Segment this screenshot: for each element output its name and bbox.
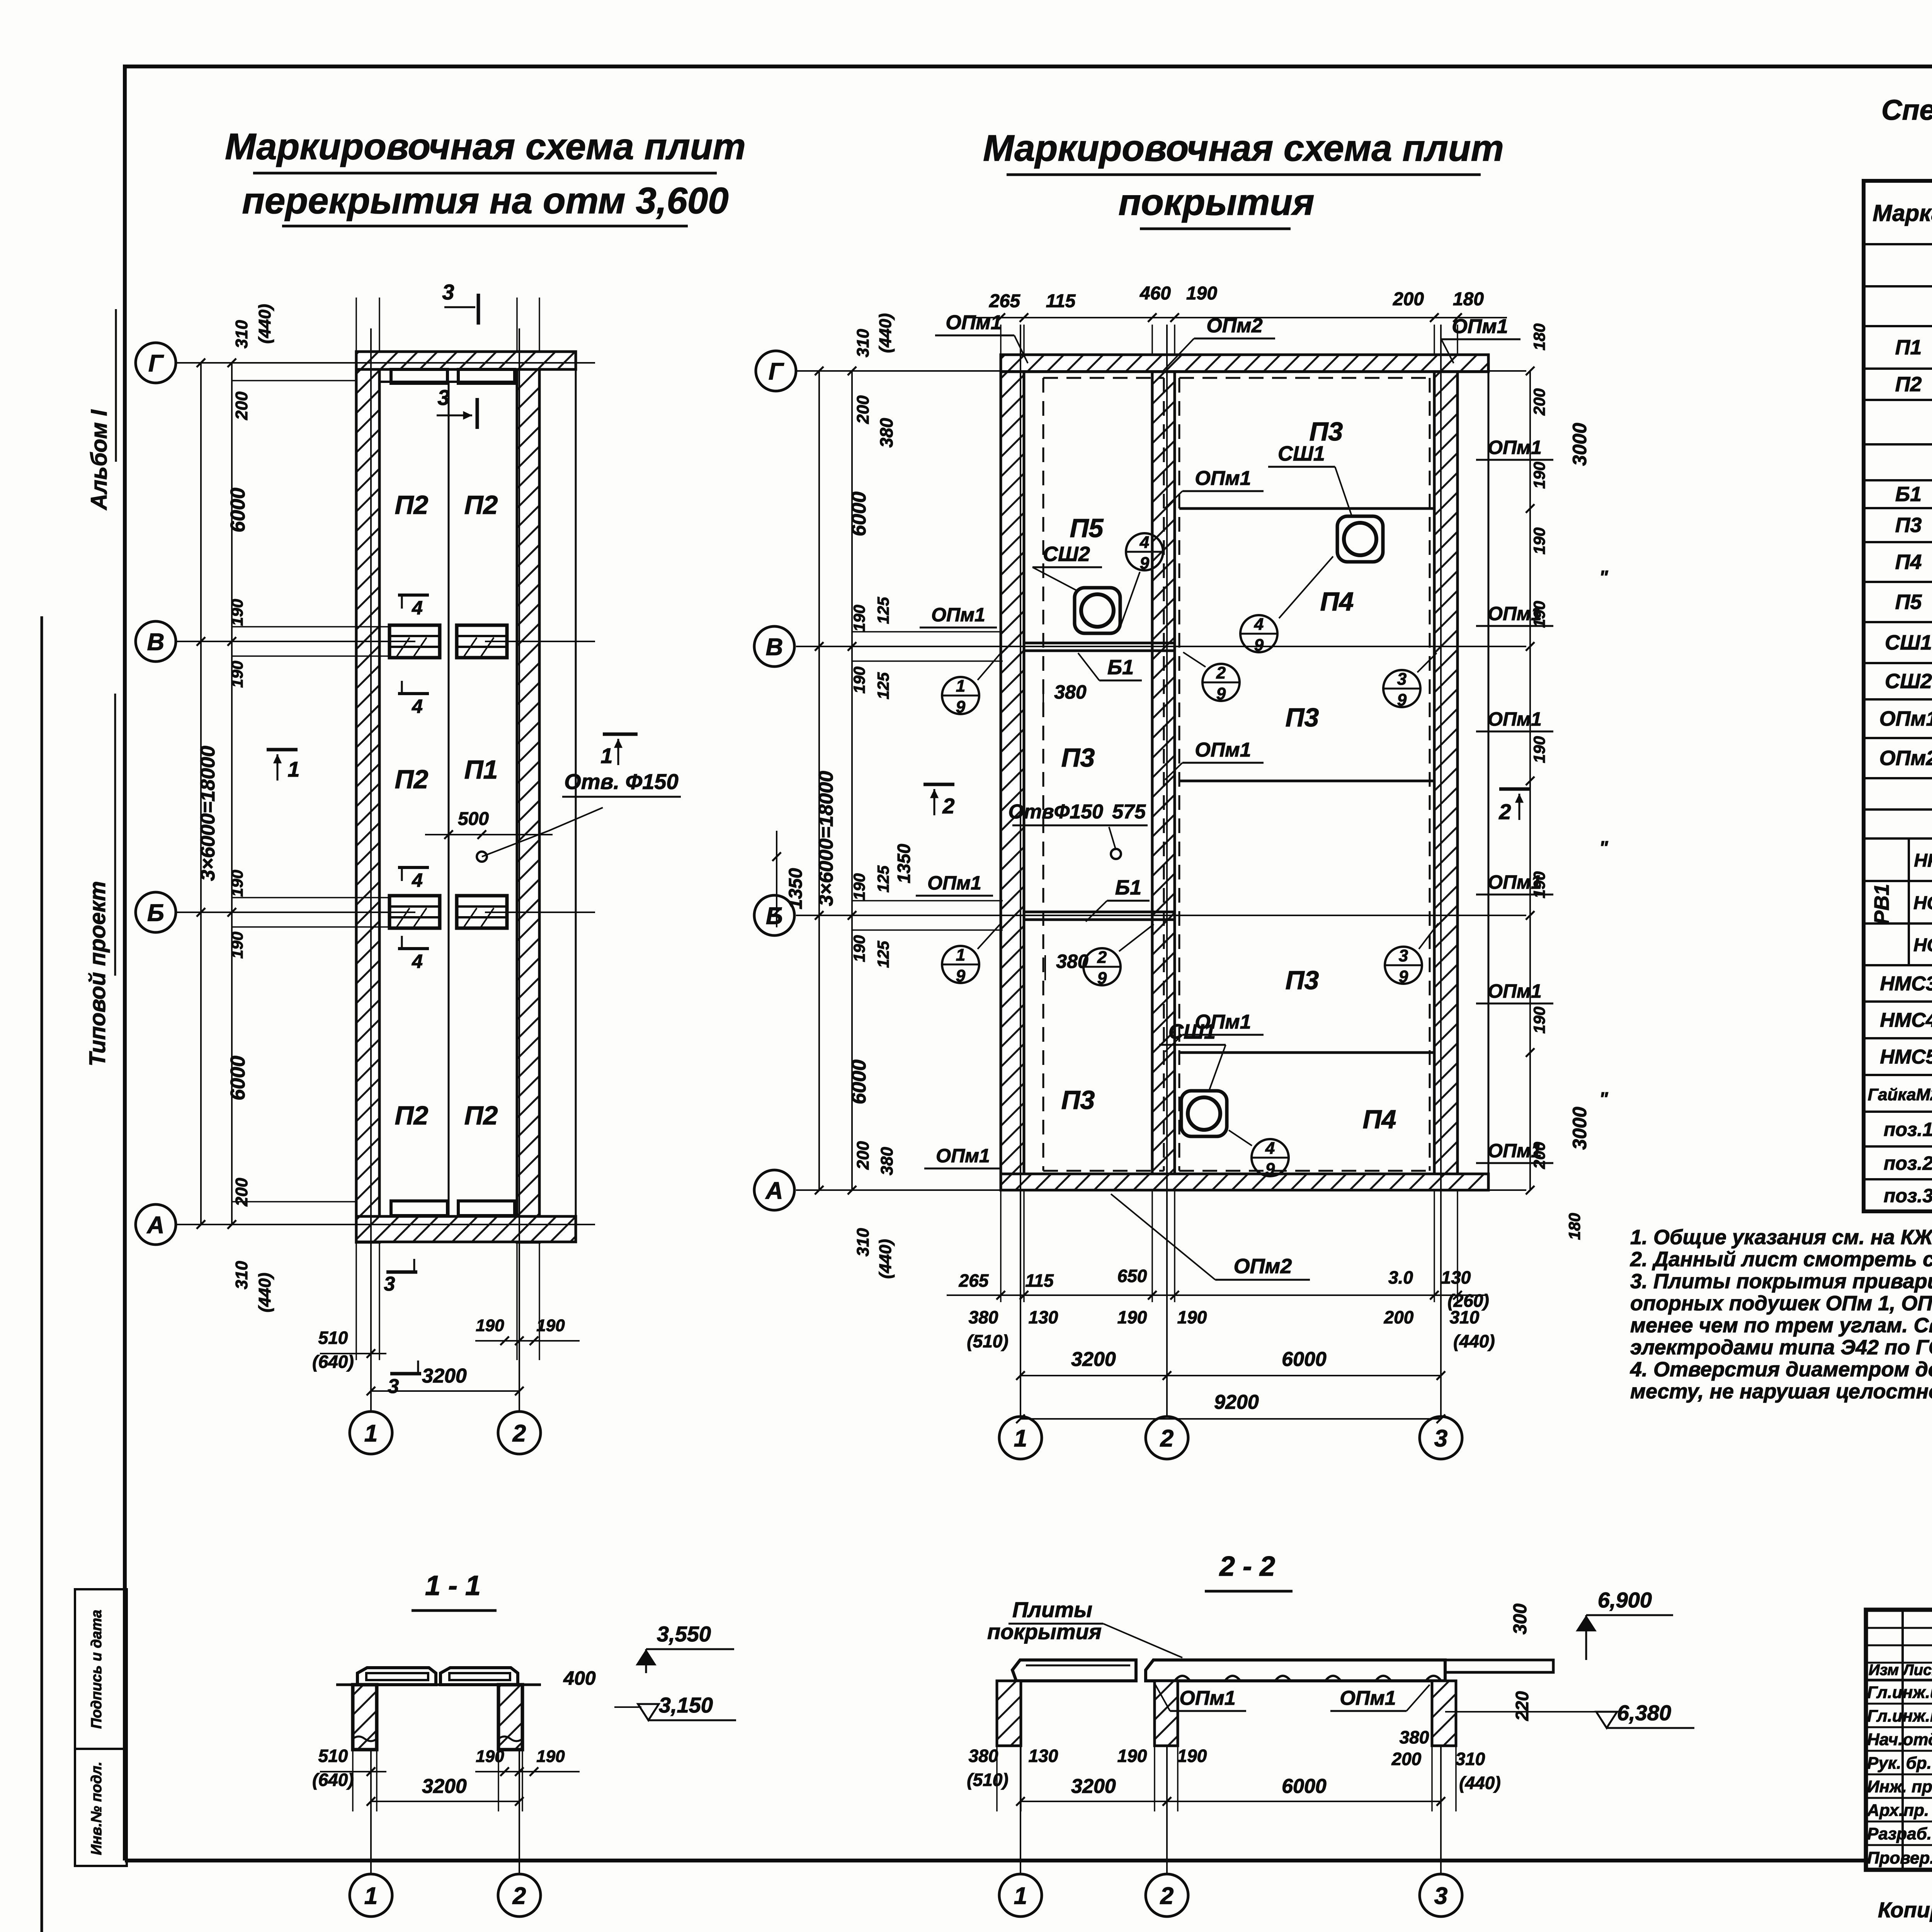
svg-text:П2: П2: [395, 765, 429, 794]
middle plan: wall axis 2: [1152, 355, 1175, 1190]
svg-text:1: 1: [1014, 1425, 1027, 1452]
svg-text:4: 4: [412, 696, 423, 717]
svg-text:СШ1: СШ1: [1278, 442, 1325, 465]
svg-text:200: 200: [232, 1178, 251, 1207]
svg-text:ОПм2: ОПм2: [1879, 747, 1932, 770]
section 2-2 walls: [997, 1681, 1021, 1746]
left plan: row Б bearing blocks: [389, 896, 440, 928]
svg-text:1: 1: [956, 946, 965, 964]
svg-text:(440): (440): [255, 1273, 274, 1313]
middle plan: dim lines at Б: [852, 900, 1003, 901]
middle plan: grid line Б: [796, 915, 1526, 916]
left plan: section cut 3 top: [477, 294, 480, 325]
svg-text:": ": [1599, 1089, 1609, 1109]
svg-text:190: 190: [476, 1316, 504, 1335]
svg-text:Инв.№ подл.: Инв.№ подл.: [88, 1762, 105, 1855]
left plan: vertical dimension chain: [200, 363, 202, 1225]
svg-text:Рук. бр.: Рук. бр.: [1867, 1754, 1932, 1773]
svg-text:6,380: 6,380: [1617, 1701, 1671, 1725]
svg-text:200: 200: [1530, 388, 1548, 416]
middle plan: grid circle А: [754, 1170, 794, 1210]
svg-text:3: 3: [442, 280, 454, 304]
left plan: slab edge lines: [379, 369, 381, 1216]
svg-text:3200: 3200: [422, 1365, 467, 1387]
svg-text:190: 190: [1117, 1746, 1147, 1766]
middle plan: top wall band Г: [1001, 355, 1488, 372]
svg-text:310: 310: [232, 320, 251, 349]
svg-text:3200: 3200: [1071, 1348, 1116, 1371]
left plan: top slab bearing plates: [379, 381, 517, 383]
svg-text:125: 125: [874, 672, 892, 699]
middle plan: bottom dims: [947, 1294, 1488, 1296]
svg-text:9: 9: [1254, 636, 1264, 655]
svg-text:510: 510: [318, 1746, 348, 1766]
svg-text:125: 125: [874, 597, 892, 624]
middle plan: grid line В: [796, 646, 1526, 647]
left plan: bottom slab bearing plates: [391, 1201, 447, 1216]
svg-text:6000: 6000: [848, 492, 870, 536]
svg-text:СШ1: СШ1: [1885, 631, 1932, 654]
svg-text:Разраб.: Разраб.: [1867, 1825, 1932, 1844]
svg-text:200: 200: [1384, 1307, 1414, 1327]
svg-text:4: 4: [1139, 533, 1149, 552]
svg-text:ОПм1: ОПм1: [1452, 315, 1508, 338]
svg-text:180: 180: [1453, 289, 1484, 310]
svg-text:А: А: [146, 1212, 165, 1238]
svg-text:Типовой проект: Типовой проект: [85, 881, 110, 1066]
svg-text:1 - 1: 1 - 1: [425, 1570, 481, 1601]
middle plan: bottom wall band А: [1001, 1174, 1488, 1190]
left plan: grid line Б: [176, 912, 415, 913]
svg-text:П1: П1: [1895, 336, 1922, 359]
svg-text:": ": [1599, 838, 1609, 858]
svg-text:Провер.: Провер.: [1867, 1849, 1932, 1867]
svg-text:НМС4: НМС4: [1880, 1009, 1932, 1032]
middle plan: socket СШ2: [1075, 588, 1120, 633]
svg-text:П3: П3: [1061, 743, 1095, 772]
svg-text:650: 650: [1117, 1266, 1147, 1286]
svg-text:П2: П2: [464, 490, 498, 520]
title block top thin rows: [1866, 1627, 1932, 1629]
svg-text:2. Данный лист смотреть с КЖ-: 2. Данный лист смотреть с КЖ- 9: [1630, 1248, 1932, 1271]
svg-text:2: 2: [1216, 663, 1226, 682]
svg-text:Подпись и дата: Подпись и дата: [88, 1610, 105, 1729]
svg-text:ОПм1: ОПм1: [1195, 739, 1251, 761]
svg-text:400: 400: [563, 1667, 596, 1689]
svg-text:190: 190: [1186, 283, 1217, 304]
middle plan: fraction 4/9 bottom: [1252, 1139, 1289, 1176]
svg-text:Б: Б: [766, 903, 783, 929]
section 1-1 right wall: [498, 1685, 522, 1750]
svg-text:1: 1: [600, 743, 612, 768]
middle plan: slab dashed outlines bay 2-3: [1179, 377, 1430, 379]
svg-text:ОПм1: ОПм1: [1488, 708, 1542, 730]
svg-text:380: 380: [876, 418, 896, 447]
svg-text:Арх.пр.: Арх.пр.: [1867, 1801, 1929, 1820]
svg-text:Б: Б: [147, 900, 164, 926]
left plan: dim lines 190-190 at Б: [232, 897, 388, 898]
svg-text:НМС3: НМС3: [1880, 973, 1932, 995]
svg-text:9: 9: [956, 966, 966, 985]
svg-text:6000: 6000: [1282, 1348, 1327, 1371]
svg-text:3: 3: [1434, 1883, 1447, 1909]
svg-text:1: 1: [287, 757, 299, 781]
svg-text:4: 4: [1265, 1139, 1275, 1158]
svg-text:190: 190: [536, 1316, 565, 1335]
svg-text:2: 2: [512, 1420, 526, 1447]
svg-text:Альбом I: Альбом I: [87, 409, 112, 511]
middle plan: grid circle В: [754, 626, 794, 667]
svg-text:3,550: 3,550: [657, 1622, 711, 1646]
middle plan: slab dashed outlines bay 1-2: [1043, 377, 1164, 379]
svg-text:6,900: 6,900: [1598, 1588, 1652, 1612]
svg-text:130: 130: [1029, 1307, 1058, 1327]
section 1-1 column circles: [370, 1748, 372, 1874]
scan edge line left: [41, 616, 43, 1932]
svg-text:2: 2: [512, 1883, 526, 1909]
svg-text:9200: 9200: [1214, 1391, 1259, 1413]
svg-text:НР1: НР1: [1914, 850, 1932, 871]
left plan: section cut 4 marks: [398, 594, 429, 597]
svg-text:3: 3: [384, 1273, 395, 1295]
svg-text:380: 380: [969, 1307, 998, 1327]
middle plan: grid circle Г: [756, 351, 796, 391]
middle plan: fraction 4/9 top: [1240, 615, 1277, 652]
middle plan: top dims: [966, 317, 1507, 318]
svg-text:Маркировочная схема плит: Маркировочная схема плит: [983, 128, 1504, 169]
svg-text:4: 4: [412, 869, 423, 891]
svg-text:(510): (510): [967, 1331, 1008, 1351]
svg-text:190: 190: [1117, 1307, 1147, 1327]
svg-text:130: 130: [1029, 1746, 1058, 1766]
svg-text:3: 3: [437, 385, 449, 410]
middle plan: slab joint lines bay 2-3: [1179, 507, 1434, 510]
middle plan: left dimension chain: [818, 371, 820, 1190]
svg-text:Б1: Б1: [1895, 483, 1922, 506]
left plan: west wall hatched: [356, 352, 379, 1242]
svg-text:(640): (640): [312, 1352, 354, 1372]
svg-text:месту, не нарушая целостности: месту, не нарушая целостности ребер плит…: [1630, 1380, 1932, 1403]
svg-text:П3: П3: [1286, 966, 1319, 995]
svg-text:П2: П2: [395, 1101, 429, 1130]
left plan: column line 2: [519, 328, 520, 1410]
svg-text:П2: П2: [464, 1101, 498, 1130]
svg-text:9: 9: [1399, 967, 1408, 986]
svg-text:200: 200: [854, 395, 872, 424]
svg-text:П2: П2: [1895, 373, 1922, 396]
svg-text:190: 190: [1530, 527, 1548, 554]
svg-text:ОПм2: ОПм2: [1234, 1255, 1292, 1278]
svg-text:6000: 6000: [227, 488, 249, 532]
svg-text:190: 190: [1530, 736, 1548, 763]
svg-text:310: 310: [854, 1228, 872, 1257]
svg-text:поз.1: поз.1: [1884, 1119, 1932, 1140]
section 1-1 slabs: [357, 1668, 436, 1685]
svg-text:ОтвФ150: ОтвФ150: [1009, 801, 1104, 823]
svg-text:П2: П2: [395, 490, 429, 520]
svg-text:510: 510: [318, 1328, 348, 1348]
svg-text:190: 190: [1530, 1007, 1548, 1034]
svg-text:ОПм1: ОПм1: [1488, 871, 1542, 893]
left plan: bottom wall band (row А): [356, 1216, 576, 1242]
svg-text:поз.2: поз.2: [1884, 1153, 1932, 1174]
middle plan: wall extension lines to dims: [1000, 325, 1002, 355]
svg-text:Г: Г: [148, 350, 164, 377]
svg-text:Отв. Ф150: Отв. Ф150: [564, 769, 678, 794]
middle plan: column line 1: [1020, 325, 1021, 1417]
table r17-19 РВ1 group: [1908, 838, 1910, 965]
middle plan: grid circle Б: [754, 895, 794, 935]
svg-text:265: 265: [989, 291, 1020, 311]
svg-text:2: 2: [1097, 948, 1107, 967]
left plan: top wall band (row Г): [356, 352, 576, 369]
middle plan: east wall (axis 3): [1434, 355, 1458, 1190]
svg-text:Спецификация элементов к марки: Спецификация элементов к маркировочным с…: [1881, 94, 1932, 126]
svg-text:310: 310: [232, 1261, 251, 1289]
svg-text:В: В: [766, 634, 783, 660]
svg-text:4: 4: [1254, 615, 1264, 634]
svg-text:(510): (510): [967, 1770, 1008, 1790]
svg-text:Гл.инж.ин.: Гл.инж.ин.: [1867, 1683, 1932, 1702]
svg-text:190: 190: [228, 661, 246, 688]
svg-text:Маркировочная схема плит: Маркировочная схема плит: [225, 126, 746, 167]
svg-text:190: 190: [850, 935, 868, 962]
left plan: grid circle В: [136, 621, 176, 662]
left plan: section cut 3 bottom marks: [386, 1270, 417, 1274]
svg-text:Б1: Б1: [1107, 656, 1134, 679]
svg-text:200: 200: [854, 1141, 872, 1170]
svg-text:9: 9: [956, 697, 966, 716]
svg-text:А: А: [765, 1177, 783, 1204]
svg-text:4: 4: [412, 597, 423, 619]
middle plan: fraction circles row Б: [942, 946, 979, 983]
left plan: grid line Г: [176, 362, 595, 364]
left plan: dim line 200 above А: [232, 1201, 357, 1202]
svg-text:190: 190: [850, 873, 868, 900]
svg-text:СШ2: СШ2: [1885, 670, 1932, 693]
svg-text:Нач.отд.: Нач.отд.: [1867, 1730, 1932, 1749]
left plan: dim line 200 below Г: [232, 380, 357, 381]
svg-text:190: 190: [850, 667, 868, 694]
svg-text:3000: 3000: [1569, 423, 1590, 466]
svg-text:П5: П5: [1070, 514, 1104, 543]
svg-text:ОПм1: ОПм1: [931, 604, 985, 626]
title block verticals: [1901, 1610, 1904, 1870]
svg-text:115: 115: [1025, 1270, 1054, 1291]
svg-text:310: 310: [1456, 1749, 1485, 1769]
svg-text:1. Общие указания см. на КЖ-1: 1. Общие указания см. на КЖ-1.: [1630, 1226, 1932, 1249]
svg-text:1: 1: [1014, 1883, 1027, 1909]
section 1-1 wall extension lines: [352, 1750, 354, 1811]
left plan: grid line В: [176, 641, 415, 642]
left plan: grid circle А: [136, 1204, 176, 1245]
left plan: grid circle Б: [136, 892, 176, 932]
svg-text:Плиты: Плиты: [1012, 1597, 1092, 1622]
svg-text:П5: П5: [1895, 590, 1922, 614]
svg-text:3: 3: [1434, 1425, 1447, 1452]
middle plan: fraction circles row В: [942, 677, 979, 714]
section 2-2 left slab: [1012, 1660, 1136, 1681]
svg-text:125: 125: [874, 865, 892, 893]
middle plan: beam Б1 under В: [1024, 642, 1175, 645]
svg-text:2: 2: [1160, 1883, 1173, 1909]
svg-text:190: 190: [536, 1747, 565, 1766]
svg-text:380: 380: [878, 1147, 896, 1175]
svg-text:ОПм1: ОПм1: [946, 311, 1002, 334]
svg-text:2: 2: [942, 794, 954, 818]
middle plan: socket СШ1 top: [1337, 516, 1383, 562]
svg-text:6000: 6000: [848, 1060, 870, 1104]
svg-text:380: 380: [969, 1746, 998, 1766]
svg-text:3,150: 3,150: [659, 1693, 713, 1717]
svg-text:2: 2: [1160, 1425, 1173, 1452]
svg-text:Г: Г: [769, 358, 784, 385]
svg-text:200: 200: [232, 391, 251, 420]
svg-text:190: 190: [850, 605, 868, 632]
svg-text:": ": [1599, 567, 1609, 588]
svg-text:1: 1: [364, 1883, 378, 1909]
svg-text:180: 180: [1565, 1213, 1583, 1240]
margin boxes bottom-left: [75, 1589, 127, 1749]
svg-text:СШ2: СШ2: [1043, 543, 1090, 566]
section 2-2 wall extension lines: [996, 1747, 998, 1811]
svg-text:электродами типа Э42 по ГОСТ94: электродами типа Э42 по ГОСТ9467- 75, h …: [1630, 1336, 1932, 1359]
svg-text:опорных подушек ОПм 1, ОПм 2 и: опорных подушек ОПм 1, ОПм 2 и к балке Б…: [1630, 1292, 1932, 1315]
svg-text:190: 190: [228, 599, 246, 626]
svg-text:менее чем по трем углам. Сварк: менее чем по трем углам. Сварку производ…: [1630, 1314, 1932, 1337]
svg-text:3×6000=18000: 3×6000=18000: [815, 771, 837, 906]
middle plan: grid line А: [796, 1189, 1526, 1191]
section 1-1 left wall: [353, 1685, 377, 1750]
svg-text:перекрытия на отм 3,600: перекрытия на отм 3,600: [242, 180, 728, 221]
svg-text:380: 380: [1054, 681, 1087, 703]
svg-text:СШ1: СШ1: [1168, 1020, 1216, 1043]
svg-text:В: В: [147, 629, 165, 655]
svg-text:Б1: Б1: [1115, 876, 1141, 899]
svg-text:3: 3: [388, 1375, 399, 1398]
svg-text:310: 310: [1450, 1307, 1480, 1327]
svg-text:3.0: 3.0: [1388, 1267, 1413, 1287]
svg-text:9: 9: [1216, 684, 1226, 703]
svg-text:4. Отверстия диаметром до 200м: 4. Отверстия диаметром до 200мм сверлить…: [1630, 1358, 1932, 1381]
svg-text:9: 9: [1140, 554, 1150, 573]
svg-text:1350: 1350: [894, 844, 914, 883]
section 2-2 right canopy slab: [1445, 1660, 1553, 1672]
svg-text:130: 130: [1441, 1267, 1471, 1287]
svg-text:575: 575: [1112, 801, 1146, 823]
svg-text:ОПм1: ОПм1: [1488, 1140, 1542, 1162]
svg-text:ОПм1: ОПм1: [936, 1145, 990, 1167]
svg-text:Изм: Изм: [1869, 1662, 1899, 1679]
svg-text:265: 265: [959, 1270, 989, 1291]
svg-text:500: 500: [458, 809, 489, 829]
svg-text:Марка: Марка: [1872, 200, 1932, 226]
svg-text:3×6000=18000: 3×6000=18000: [197, 746, 219, 881]
middle plan: west wall (axis 1): [1001, 355, 1024, 1190]
svg-text:190: 190: [476, 1747, 504, 1766]
svg-text:4: 4: [412, 951, 423, 972]
svg-text:НС1: НС1: [1913, 893, 1932, 913]
left plan: column circle 2: [498, 1412, 541, 1454]
svg-text:ОПм1: ОПм1: [1488, 980, 1542, 1002]
svg-text:(440): (440): [1453, 1331, 1495, 1351]
svg-text:3000: 3000: [1569, 1107, 1590, 1150]
svg-text:9: 9: [1265, 1160, 1275, 1179]
svg-text:115: 115: [1046, 291, 1076, 311]
svg-text:200: 200: [1393, 289, 1424, 310]
svg-text:190: 190: [228, 932, 246, 959]
svg-text:2: 2: [1498, 799, 1511, 824]
svg-text:6000: 6000: [227, 1056, 249, 1100]
svg-text:3. Плиты покрытия приварить к: 3. Плиты покрытия приварить к закладным …: [1630, 1270, 1932, 1293]
middle plan: column circle 1: [999, 1417, 1042, 1459]
svg-text:9: 9: [1097, 969, 1107, 988]
svg-text:1: 1: [364, 1420, 378, 1447]
left plan: grid line А: [176, 1224, 595, 1225]
svg-text:ОПм1: ОПм1: [927, 872, 981, 894]
left plan: dim lines 190-190 at В: [232, 626, 388, 628]
left plan: row В bearing blocks: [389, 625, 440, 658]
svg-text:310: 310: [854, 329, 872, 357]
svg-text:3: 3: [1397, 670, 1406, 689]
middle plan: column line 2: [1166, 325, 1168, 1417]
svg-text:П3: П3: [1895, 514, 1922, 537]
svg-text:Гл.инж.пр.: Гл.инж.пр.: [1867, 1707, 1932, 1726]
svg-text:3200: 3200: [422, 1775, 467, 1798]
svg-text:П3: П3: [1286, 703, 1319, 732]
svg-text:Копир. Шейнфайн: Копир. Шейнфайн: [1878, 1898, 1932, 1922]
middle plan: socket СШ1 bottom: [1181, 1091, 1227, 1136]
svg-text:(440): (440): [255, 304, 274, 344]
middle plan: column circle 3: [1420, 1417, 1462, 1459]
svg-text:Лист: Лист: [1902, 1662, 1932, 1679]
left plan: section cut 1 left: [267, 748, 298, 752]
svg-text:ОПм1: ОПм1: [1179, 1687, 1235, 1709]
svg-text:190: 190: [228, 870, 246, 897]
middle plan: beam Б1 under Б: [1024, 911, 1175, 913]
svg-text:(440): (440): [1459, 1773, 1500, 1793]
left plan: grid circle Г: [136, 343, 176, 383]
svg-text:190: 190: [1177, 1307, 1207, 1327]
svg-text:380: 380: [1400, 1727, 1429, 1747]
svg-text:300: 300: [1510, 1604, 1531, 1634]
svg-text:П1: П1: [464, 755, 498, 784]
title block frame: [1866, 1610, 1932, 1870]
left plan: column line 1: [370, 328, 372, 1410]
svg-text:2 - 2: 2 - 2: [1219, 1551, 1275, 1582]
svg-text:ОПм1: ОПм1: [1488, 603, 1542, 624]
svg-text:3200: 3200: [1071, 1775, 1116, 1798]
middle plan: column circle 2: [1146, 1417, 1188, 1459]
svg-text:9: 9: [1397, 690, 1407, 709]
svg-text:3: 3: [1399, 946, 1408, 965]
svg-text:НС2: НС2: [1913, 935, 1932, 956]
section 2-2 main ribbed slab: [1146, 1660, 1445, 1681]
svg-text:220: 220: [1512, 1691, 1532, 1721]
svg-text:П4: П4: [1363, 1105, 1396, 1134]
left plan: column circle 1: [350, 1412, 392, 1454]
svg-text:ОПм1: ОПм1: [1488, 437, 1542, 458]
svg-text:ГайкаМ24: ГайкаМ24: [1868, 1085, 1932, 1104]
svg-text:ОПм1: ОПм1: [1195, 467, 1251, 490]
middle plan: fraction 4/9 near СШ2: [1126, 533, 1163, 570]
left plan: bottom dims: [320, 1353, 386, 1354]
svg-text:покрытия: покрытия: [987, 1619, 1102, 1644]
svg-text:180: 180: [1530, 323, 1548, 350]
left plan: section cut 3 upper: [476, 398, 479, 429]
middle plan: column line 3: [1440, 325, 1442, 1417]
svg-text:ОПм1: ОПм1: [1340, 1687, 1396, 1709]
